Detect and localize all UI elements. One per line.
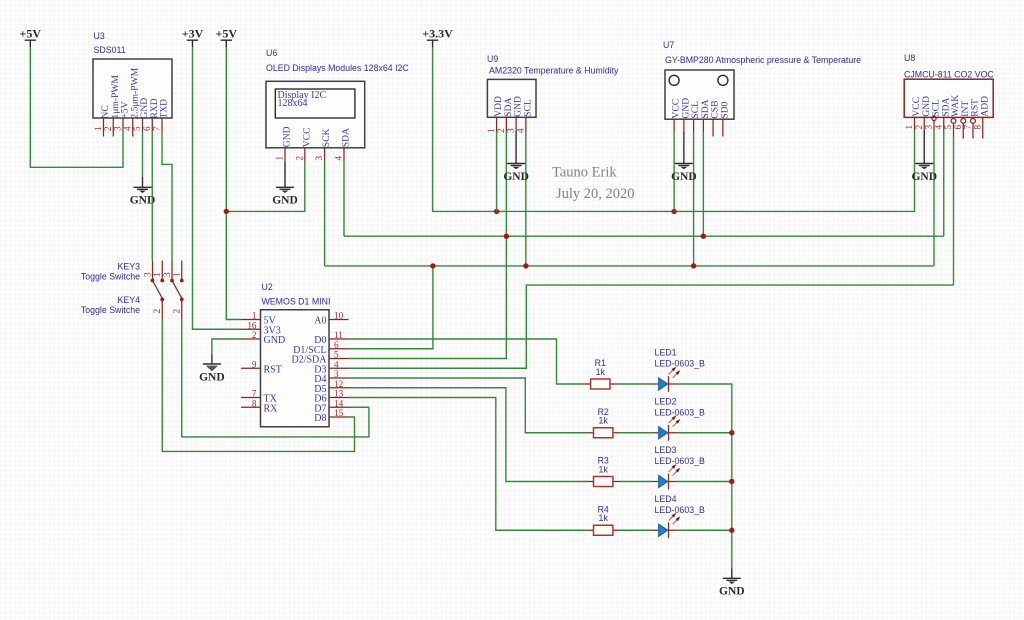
node junction SCL/U7 — [691, 263, 696, 268]
svg-text:1k: 1k — [596, 367, 606, 377]
wire U6 SCK down to SCL bus — [324, 161, 326, 266]
KEY3 pin 1 — [152, 261, 164, 283]
U7 pin VCC — [673, 119, 675, 132]
U2 pin 4 D3 — [314, 359, 348, 375]
KEY3 pin 2 — [152, 298, 164, 320]
svg-text:LED-0603_B: LED-0603_B — [655, 407, 706, 417]
svg-text:7: 7 — [252, 389, 257, 399]
ground GND under U7 — [671, 132, 697, 183]
U2 pin 8 RX — [241, 398, 278, 414]
U7 pin CSB — [712, 119, 714, 136]
U2 pin 10 A0 — [314, 311, 348, 327]
svg-text:Toggle Switche: Toggle Switche — [81, 272, 140, 282]
svg-text:TXD: TXD — [159, 99, 170, 119]
svg-text:3: 3 — [314, 156, 324, 161]
svg-text:GND: GND — [282, 126, 293, 147]
wire U8 SDA to SDA bus — [943, 131, 945, 236]
U9 pin 4 — [515, 117, 526, 133]
svg-text:2: 2 — [914, 125, 924, 130]
svg-text:7: 7 — [963, 125, 973, 130]
U6 pin 1 — [275, 148, 286, 162]
U8 pin 1 VCC — [904, 117, 915, 131]
U2 pin 3 D4 — [314, 369, 348, 385]
LED LED4 — [652, 494, 705, 538]
svg-text:SCK: SCK — [321, 128, 332, 147]
wire U6 SDA down to SDA bus — [343, 161, 345, 236]
svg-text:+5V: +5V — [216, 27, 238, 41]
svg-text:D8: D8 — [314, 413, 326, 424]
KEY4 pin 1 — [172, 261, 184, 283]
resistor R4 — [587, 504, 620, 535]
wire U3 GND pin to ground — [142, 132, 144, 178]
svg-text:2: 2 — [496, 128, 506, 133]
svg-text:1k: 1k — [599, 513, 609, 523]
svg-text:U9: U9 — [487, 54, 498, 64]
ground GND under U6 — [272, 161, 298, 206]
svg-text:LED1: LED1 — [655, 348, 677, 358]
svg-text:3: 3 — [506, 128, 516, 133]
ground GND under LED bus — [719, 569, 745, 598]
power symbol +5V (second) — [216, 27, 238, 47]
svg-text:SD0: SD0 — [719, 101, 730, 118]
svg-text:6: 6 — [953, 125, 963, 130]
svg-text:3: 3 — [142, 272, 152, 277]
wire LED4 cathode to GND bus — [675, 529, 732, 531]
svg-text:8: 8 — [252, 398, 257, 408]
U7 pin SCL — [693, 119, 695, 132]
U3 pin 4 — [122, 118, 133, 137]
U8 pin 8 ADD — [972, 117, 983, 138]
svg-text:RX: RX — [264, 403, 279, 414]
wire D0 to R1 — [349, 339, 585, 384]
svg-text:4: 4 — [122, 126, 132, 131]
svg-text:16: 16 — [247, 320, 257, 330]
U3 pin 1 — [93, 118, 104, 137]
U2 pin 9 RST — [241, 359, 282, 375]
node junction SDA/U9 — [504, 234, 509, 239]
node junction SDA/U7 — [701, 234, 706, 239]
svg-text:1: 1 — [152, 272, 162, 277]
ground GND under U8 — [911, 131, 937, 183]
wire U3 RXD down to KEY3 — [151, 132, 153, 261]
svg-text:GND: GND — [272, 195, 298, 207]
U2 pin 2 GND — [241, 330, 285, 346]
wire SCL bus — [325, 265, 934, 267]
power symbol +3V — [182, 27, 204, 47]
wire R1 to LED1 — [617, 383, 652, 385]
wire D4 to R2 — [349, 378, 588, 433]
svg-text:3: 3 — [334, 369, 339, 379]
U8 pin 4 SDA — [933, 117, 944, 131]
wire U7 SCL to SCL bus — [693, 132, 695, 266]
power symbol +3.3V — [422, 27, 453, 47]
U2 pin 14 D7 — [314, 398, 348, 414]
svg-text:5: 5 — [334, 350, 339, 360]
resistor R1 — [584, 358, 617, 389]
wire U2 GND pin to ground — [212, 339, 241, 355]
wire U8 WAK down to D3 route — [953, 137, 955, 285]
svg-text:U3: U3 — [94, 31, 105, 41]
svg-text:10: 10 — [334, 311, 344, 321]
LED LED1 — [652, 348, 705, 392]
svg-text:6: 6 — [334, 340, 339, 350]
svg-text:+3.3V: +3.3V — [422, 27, 453, 41]
wire +5V left rail to U3 pin3 — [30, 47, 123, 167]
svg-text:AM2320 Temperature & Humidity: AM2320 Temperature & Humidity — [489, 66, 619, 76]
U8 pin 2 GND — [914, 117, 925, 131]
wire U7 SDA to SDA bus — [702, 132, 704, 236]
U9 pin 2 — [496, 117, 507, 133]
U7 pin SDA — [702, 119, 704, 132]
svg-text:LED2: LED2 — [655, 396, 677, 406]
svg-text:KEY4: KEY4 — [118, 295, 141, 305]
svg-text:2: 2 — [252, 330, 257, 340]
svg-text:GY-BMP280 Atmospheric pressure: GY-BMP280 Atmospheric pressure & Tempera… — [665, 55, 861, 65]
wire LED3 cathode to GND bus — [675, 481, 732, 483]
U7 pin GND — [683, 119, 685, 132]
svg-text:128x64: 128x64 — [278, 98, 308, 109]
switch KEY4 toggle — [81, 295, 140, 315]
svg-text:14: 14 — [334, 398, 344, 408]
sensor U9 AM2320 — [487, 54, 619, 117]
ground GND under U9 — [503, 131, 529, 183]
svg-text:3: 3 — [924, 125, 934, 130]
U6 pin 4 — [334, 148, 345, 162]
U2 pin 1 5V — [241, 311, 277, 327]
wire LED1 cathode to GND bus — [675, 384, 732, 569]
LED LED3 — [652, 445, 705, 489]
wire U8 SCL to SCL bus — [933, 131, 935, 266]
wire U9 SDA down to U2 D2/SDA — [349, 131, 507, 359]
svg-text:SDA: SDA — [341, 128, 352, 147]
node junction LED3/GND bus — [729, 479, 734, 484]
wire D3 to U8 WAK route — [349, 285, 954, 368]
wire U9 VDD to +3.3V rail — [496, 131, 498, 211]
sensor U8 CJMCU-811 — [904, 53, 994, 117]
wire R3 to LED3 — [620, 481, 653, 483]
U2 pin 11 D0 — [314, 330, 348, 346]
U9 pin 3 — [506, 117, 517, 133]
wire U9 SCL down to SCL bus — [525, 131, 527, 266]
svg-text:1: 1 — [904, 125, 914, 130]
U7 pin SD0 — [722, 119, 724, 136]
svg-text:LED-0603_B: LED-0603_B — [655, 359, 706, 369]
svg-text:12: 12 — [334, 379, 344, 389]
wire +5V rail down to U2 pin1 5V — [226, 47, 241, 320]
svg-text:GND: GND — [503, 171, 529, 183]
svg-text:SCL: SCL — [522, 99, 533, 117]
sensor U3 SDS011 — [93, 31, 172, 119]
U2 pin 16 3V3 — [241, 320, 281, 336]
svg-text:A0: A0 — [314, 316, 326, 327]
svg-text:1: 1 — [252, 311, 257, 321]
node junction SCL/U9 — [523, 263, 528, 268]
wire SDA bus — [344, 235, 944, 237]
wire U7 VCC to +3.3V rail — [673, 132, 675, 211]
svg-text:OLED Displays Modules 128x64 I: OLED Displays Modules 128x64 I2C — [266, 63, 409, 73]
svg-text:SDS011: SDS011 — [94, 45, 126, 55]
svg-text:11: 11 — [334, 330, 343, 340]
KEY4 lever — [172, 281, 182, 300]
ground GND under U3 — [130, 177, 156, 207]
svg-text:8: 8 — [972, 125, 982, 130]
svg-text:U8: U8 — [904, 53, 915, 63]
svg-text:U7: U7 — [663, 40, 674, 50]
svg-text:Tauno Erik: Tauno Erik — [552, 165, 617, 181]
svg-text:2: 2 — [103, 126, 113, 131]
svg-text:1k: 1k — [599, 464, 609, 474]
svg-text:1: 1 — [93, 126, 103, 131]
sensor U7 GY-BMP280 — [663, 40, 861, 119]
KEY4 pin 2 — [172, 298, 184, 320]
svg-text:KEY3: KEY3 — [118, 262, 141, 272]
svg-text:WEMOS D1 MINI: WEMOS D1 MINI — [262, 297, 331, 307]
wire +5V branch to U6 VCC — [226, 161, 304, 211]
LED LED2 — [652, 396, 705, 440]
wire +3.3V rail: U9 VDD, U7 VCC, U8 VCC — [433, 47, 915, 211]
svg-text:1: 1 — [486, 128, 496, 133]
U8 pin 6 INT — [953, 119, 966, 139]
resistor R2 — [587, 407, 620, 438]
svg-text:4: 4 — [334, 359, 339, 369]
wire KEY4 pin2 down to D7 route — [182, 319, 369, 437]
KEY3 lever — [153, 281, 163, 300]
U2 pin 6 D1/SCL — [293, 340, 348, 356]
U3 pin 3 — [113, 118, 124, 132]
svg-text:4: 4 — [515, 128, 525, 133]
U8 pin 7 RST — [963, 119, 976, 139]
svg-text:LED-0603_B: LED-0603_B — [655, 456, 706, 466]
svg-text:U6: U6 — [266, 48, 277, 58]
mcu U2 WEMOS D1 MINI — [261, 282, 331, 427]
U8 pin 5 WAK — [943, 119, 956, 138]
U2 pin 12 D5 — [314, 379, 348, 395]
wire D6 to R4 — [349, 398, 588, 531]
node junction +5V/U6 VCC — [224, 209, 229, 214]
wire U3 TXD down to KEY4 — [162, 132, 172, 261]
svg-text:GND: GND — [911, 171, 937, 183]
svg-text:9: 9 — [252, 359, 257, 369]
U6 pin 2 — [294, 148, 305, 162]
U2 pin 7 TX — [241, 389, 278, 405]
U3 pin 7 — [152, 118, 163, 132]
svg-text:July 20, 2020: July 20, 2020 — [556, 186, 635, 202]
svg-text:LED3: LED3 — [655, 445, 677, 455]
ground GND under U2 — [199, 355, 225, 384]
wire D5 to R3 — [349, 388, 588, 482]
svg-text:3: 3 — [162, 272, 172, 277]
wire R2 to LED2 — [620, 432, 653, 434]
svg-text:U2: U2 — [262, 282, 273, 292]
node junction SCL/D1 branch — [430, 263, 435, 268]
svg-text:GND: GND — [671, 171, 697, 183]
svg-text:+5V: +5V — [20, 27, 42, 41]
svg-text:ADD: ADD — [979, 96, 990, 117]
svg-text:5: 5 — [943, 125, 953, 130]
svg-text:CJMCU-811 CO2 VOC: CJMCU-811 CO2 VOC — [904, 70, 994, 80]
svg-text:2: 2 — [172, 309, 182, 314]
wire KEY3 pin2 down to D8 route — [162, 319, 354, 451]
op module U6 OLED display — [266, 48, 409, 148]
wire +3V rail to U2 pin16 3V3 — [193, 47, 242, 329]
U3 pin 2 — [103, 118, 114, 137]
node junction +3.3V/U9 VDD — [494, 209, 499, 214]
svg-text:1k: 1k — [599, 416, 609, 426]
svg-text:+3V: +3V — [182, 27, 204, 41]
svg-text:Toggle Switche: Toggle Switche — [81, 305, 140, 315]
U9 pin 1 — [486, 117, 497, 133]
svg-text:6: 6 — [142, 126, 152, 131]
svg-text:GND: GND — [130, 195, 156, 207]
U2 pin 13 D6 — [314, 389, 348, 405]
svg-text:4: 4 — [933, 125, 943, 130]
wire LED2 cathode to GND bus — [675, 432, 732, 434]
svg-text:2: 2 — [152, 309, 162, 314]
svg-text:GND: GND — [264, 335, 286, 346]
resistor R3 — [587, 456, 620, 487]
node junction +3.3V/U7 VCC — [671, 209, 676, 214]
KEY4 pin 3 — [162, 261, 174, 283]
U6 pin 3 — [314, 148, 325, 162]
U2 pin 5 D2/SDA — [291, 350, 348, 366]
power symbol +5V (left) — [20, 27, 42, 47]
svg-text:GND: GND — [199, 371, 225, 383]
U8 pin 3 SCL — [924, 116, 937, 131]
svg-text:7: 7 — [152, 126, 162, 131]
KEY3 pin 3 — [142, 261, 154, 283]
wire R4 to LED4 — [620, 529, 653, 531]
svg-text:5: 5 — [132, 126, 142, 131]
node junction LED4/GND bus — [729, 528, 734, 533]
svg-text:RST: RST — [264, 364, 282, 375]
svg-text:GND: GND — [719, 586, 745, 598]
svg-text:4: 4 — [334, 156, 344, 161]
svg-text:1: 1 — [172, 272, 182, 277]
svg-text:LED-0603_B: LED-0603_B — [655, 505, 706, 515]
svg-text:3: 3 — [113, 126, 123, 131]
switch KEY3 toggle — [81, 262, 140, 282]
svg-text:LED4: LED4 — [655, 494, 677, 504]
U2 pin 15 D8 — [314, 408, 348, 424]
wire SCL branch down to U2 D1/SCL — [349, 266, 433, 349]
U3 pin 5 — [132, 118, 143, 132]
svg-text:2: 2 — [294, 156, 304, 161]
svg-text:1: 1 — [275, 156, 285, 161]
svg-text:13: 13 — [334, 389, 344, 399]
svg-text:VCC: VCC — [301, 127, 312, 147]
node junction LED2/GND bus — [729, 430, 734, 435]
U3 pin 6 — [142, 118, 153, 132]
svg-text:15: 15 — [334, 408, 344, 418]
